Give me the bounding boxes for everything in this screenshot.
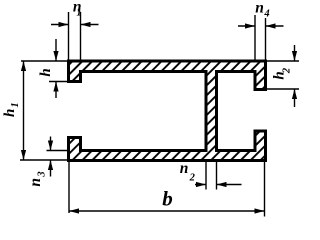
arrowheads xyxy=(21,22,297,214)
b extension lines xyxy=(69,162,265,217)
n1 dimension line xyxy=(51,24,99,26)
svg-text:1: 1 xyxy=(10,102,21,107)
svg-text:b: b xyxy=(162,187,173,211)
svg-text:1: 1 xyxy=(76,8,81,19)
svg-text:3: 3 xyxy=(37,171,48,177)
svg-text:4: 4 xyxy=(263,9,269,20)
h1 arrows xyxy=(21,61,26,71)
n2 arrows xyxy=(196,182,206,187)
b dimension line xyxy=(69,210,265,212)
svg-text:2: 2 xyxy=(282,67,293,74)
h1 dimension line xyxy=(23,61,25,160)
thin dimension / extension lines xyxy=(20,12,299,217)
n2 extension lines xyxy=(206,162,217,190)
h1 / n3 bottom extension line xyxy=(20,159,70,161)
svg-text:h: h xyxy=(2,109,18,117)
svg-text:h: h xyxy=(38,68,54,76)
profile cross-section (hat channel), hatched xyxy=(69,61,266,161)
svg-text:n: n xyxy=(27,178,44,187)
h top extension line (shared with h1) xyxy=(21,60,69,62)
n1 arrows xyxy=(59,22,69,27)
n4 dimension line xyxy=(238,25,284,27)
h bottom extension line xyxy=(49,81,69,83)
n4 arrows xyxy=(245,23,255,28)
h2 extension lines xyxy=(266,61,300,89)
n2 dimension line xyxy=(195,184,242,186)
n3 arrows xyxy=(48,141,53,151)
n3 top extension line xyxy=(47,150,69,152)
h arrows xyxy=(53,51,58,61)
b arrows xyxy=(69,208,79,213)
n3 dimension line xyxy=(50,137,52,177)
h2 arrows xyxy=(292,51,297,61)
svg-text:2: 2 xyxy=(189,173,196,184)
svg-text:n: n xyxy=(255,0,264,17)
n4 extension lines xyxy=(255,15,266,61)
h2 dimension line xyxy=(294,45,296,107)
h dimension line xyxy=(55,39,57,98)
svg-text:n: n xyxy=(180,160,189,177)
n1 extension lines xyxy=(69,12,81,61)
